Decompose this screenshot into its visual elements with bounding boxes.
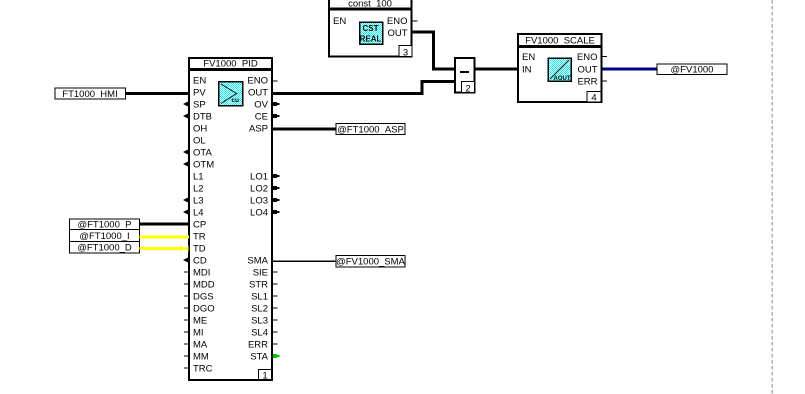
svg-text:@FT1000_ASP: @FT1000_ASP	[337, 125, 404, 136]
block number 2 box	[462, 82, 475, 93]
svg-text:LO4: LO4	[250, 208, 268, 219]
wire FV1000_PID.SMA to @FV1000_SMA	[273, 260, 336, 262]
svg-text:EN: EN	[333, 16, 346, 27]
svg-text:cu: cu	[231, 97, 239, 104]
svg-text:STR: STR	[249, 280, 268, 291]
icon cu	[219, 82, 243, 106]
svg-text:SIE: SIE	[253, 268, 268, 279]
title box const_100	[329, 0, 412, 9]
label @FT1000_ASP	[336, 124, 405, 136]
svg-text:OUT: OUT	[577, 65, 597, 76]
body const_100	[329, 10, 412, 57]
svg-text:L4: L4	[193, 208, 204, 219]
svg-text:FV1000_SCALE: FV1000_SCALE	[525, 36, 595, 47]
svg-text:ASP: ASP	[249, 124, 268, 135]
wire @FT1000_D to TD (yellow with arrow)	[140, 247, 181, 250]
wire @FT1000_I to TR (yellow)	[140, 236, 190, 239]
label @FV1000_SMA	[336, 256, 406, 268]
svg-text:CE: CE	[255, 112, 268, 123]
svg-text:SP: SP	[193, 100, 206, 111]
wire FV1000_PID.ASP to @FT1000_ASP	[273, 128, 336, 131]
wire @FT1000_P to CP	[140, 223, 190, 226]
svg-text:REAL: REAL	[360, 35, 382, 44]
svg-text:@FV1000_SMA: @FV1000_SMA	[336, 257, 405, 268]
svg-text:STA: STA	[250, 352, 268, 363]
icon CST REAL	[360, 22, 383, 44]
svg-text:PV: PV	[193, 88, 206, 99]
svg-text:@FV1000: @FV1000	[671, 65, 714, 76]
svg-text:OTA: OTA	[193, 148, 212, 159]
svg-text:OUT: OUT	[387, 28, 407, 39]
wire minus output to FV1000_SCALE.IN	[476, 68, 518, 71]
svg-text:FT1000_HMI: FT1000_HMI	[62, 89, 117, 100]
block number 4 box	[587, 92, 601, 103]
svg-text:SL1: SL1	[251, 292, 268, 303]
pin stub ENO	[413, 20, 418, 22]
icon AOUT	[548, 58, 571, 81]
svg-text:TD: TD	[193, 244, 206, 255]
svg-text:3: 3	[403, 47, 408, 58]
block number 1 box	[259, 370, 272, 380]
svg-text:@FT1000_I: @FT1000_I	[79, 231, 129, 242]
svg-text:@FT1000_D: @FT1000_D	[77, 243, 132, 254]
left input arrows	[183, 101, 189, 263]
svg-text:OH: OH	[193, 124, 207, 135]
label @FT1000_I	[70, 230, 140, 243]
svg-text:OTM: OTM	[193, 160, 214, 171]
svg-text:EN: EN	[522, 52, 535, 63]
wire FV1000_SCALE.OUT to @FV1000 (navy)	[603, 68, 658, 71]
label @FT1000_P	[70, 219, 140, 231]
svg-text:MDI: MDI	[193, 268, 210, 279]
svg-text:1: 1	[262, 371, 267, 382]
svg-text:DGO: DGO	[193, 304, 215, 315]
svg-text:ERR: ERR	[248, 340, 268, 351]
svg-text:MA: MA	[193, 340, 208, 351]
block number 3 box	[399, 46, 412, 57]
svg-text:CD: CD	[193, 256, 207, 267]
svg-text:ERR: ERR	[577, 77, 597, 88]
svg-text:L2: L2	[193, 184, 204, 195]
green STA arrow	[273, 354, 280, 358]
left pin texts	[193, 76, 215, 375]
svg-text:AOUT: AOUT	[554, 76, 571, 82]
svg-text:LO1: LO1	[250, 172, 268, 183]
title box FV1000_PID	[189, 58, 272, 69]
svg-text:OUT: OUT	[248, 88, 268, 99]
right pin texts	[247, 76, 268, 363]
svg-text:ME: ME	[193, 316, 207, 327]
svg-text:DTB: DTB	[193, 112, 212, 123]
svg-text:TRC: TRC	[193, 364, 213, 375]
svg-text:TR: TR	[193, 232, 206, 243]
label @FV1000	[657, 64, 727, 76]
svg-text:ENO: ENO	[577, 52, 598, 63]
svg-text:LO3: LO3	[250, 196, 268, 207]
svg-text:SL3: SL3	[251, 316, 268, 327]
function block const_100	[329, 0, 418, 58]
pin stub ERR	[603, 80, 608, 82]
function block FV1000_SCALE	[518, 34, 607, 104]
svg-text:ENO: ENO	[387, 16, 408, 27]
svg-text:FV1000_PID: FV1000_PID	[203, 59, 258, 70]
svg-text:DGS: DGS	[193, 292, 214, 303]
svg-text:4: 4	[591, 93, 596, 104]
svg-text:@FT1000_P: @FT1000_P	[77, 220, 131, 231]
pin stub ENO	[603, 56, 608, 58]
svg-text:SL2: SL2	[251, 304, 268, 315]
svg-text:L1: L1	[193, 172, 204, 183]
svg-text:ENO: ENO	[247, 76, 268, 87]
svg-text:MM: MM	[193, 352, 209, 363]
right thin stubs	[273, 81, 278, 344]
label @FT1000_D	[70, 242, 140, 254]
svg-text:CP: CP	[193, 220, 206, 231]
right output arrows	[273, 102, 280, 214]
body FV1000_PID	[189, 70, 272, 380]
left thin stubs	[184, 272, 188, 368]
svg-text:CST: CST	[363, 24, 379, 33]
svg-text:SMA: SMA	[247, 256, 268, 267]
svg-text:const_100: const_100	[348, 0, 392, 10]
svg-text:MI: MI	[193, 328, 204, 339]
wire const_100.OUT to minus block input1	[413, 31, 455, 71]
function block FV1000_PID	[189, 58, 272, 382]
svg-text:IN: IN	[522, 65, 532, 76]
svg-text:OV: OV	[254, 100, 268, 111]
wire FV1000_PID.OUT to minus block input2	[273, 80, 454, 95]
wire FT1000_HMI to PV	[126, 92, 190, 95]
svg-text:L3: L3	[193, 196, 204, 207]
body FV1000_SCALE	[518, 47, 602, 102]
operator block minus	[455, 58, 475, 94]
svg-text:SL4: SL4	[251, 328, 268, 339]
svg-text:2: 2	[465, 83, 470, 94]
svg-text:MDD: MDD	[193, 280, 215, 291]
title box FV1000_SCALE	[518, 34, 602, 46]
label FT1000_HMI	[55, 88, 126, 100]
svg-text:EN: EN	[193, 76, 206, 87]
svg-text:OL: OL	[193, 136, 206, 147]
svg-text:LO2: LO2	[250, 184, 268, 195]
page break dashed line	[771, 0, 773, 394]
